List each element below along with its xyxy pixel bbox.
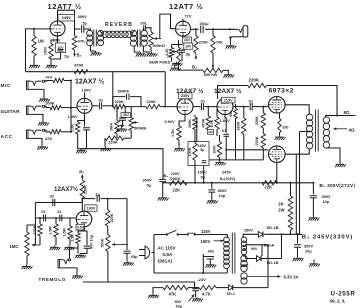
svg-text:2K: 2K xyxy=(278,202,283,207)
capacitor .01 V6 coupling xyxy=(250,103,252,110)
ground 300V cap xyxy=(158,196,169,201)
wire 2.2K to ground xyxy=(78,134,81,149)
svg-text:235V: 235V xyxy=(181,94,190,98)
spring coil reverb xyxy=(100,31,103,34)
wire V4 cathode xyxy=(179,115,185,126)
junction NFB tap xyxy=(336,115,338,117)
resistor 220K NFB xyxy=(248,83,266,87)
svg-text:B₂: B₂ xyxy=(79,169,84,174)
ground tone network xyxy=(101,147,112,152)
wire mic to mix point xyxy=(64,81,71,133)
wire 500K pot ground xyxy=(150,47,152,52)
svg-text:20μ: 20μ xyxy=(305,249,312,254)
arrow bias cap label xyxy=(189,295,195,302)
wire 3.9K bottom xyxy=(216,130,218,137)
svg-text:220K: 220K xyxy=(115,99,124,104)
wire .002 to ground xyxy=(122,120,124,127)
arrow 500K wiper reverb xyxy=(154,38,161,40)
output jack xyxy=(243,26,248,37)
wire V3 plate xyxy=(84,93,86,99)
wire V5 cathode xyxy=(225,115,226,133)
svg-text:(208V): (208V) xyxy=(170,177,182,181)
wire ACC sleeve xyxy=(31,138,42,145)
ground 500KB xyxy=(223,73,234,78)
wire tone to splitter grid xyxy=(160,106,177,108)
ground bias 47K xyxy=(148,294,159,299)
svg-text:B₄: B₄ xyxy=(192,65,197,70)
svg-text:100K: 100K xyxy=(212,145,216,154)
potentiometer 500K depth xyxy=(107,226,109,235)
svg-text:B₄: B₄ xyxy=(164,174,169,178)
resistor 22K B4 xyxy=(169,181,187,185)
fuse xyxy=(186,233,188,235)
svg-text:12AX7 ½: 12AX7 ½ xyxy=(75,78,104,86)
wire wiper 1MC xyxy=(32,244,40,246)
ground 2K semi fixed xyxy=(175,64,179,66)
arrow 2K wiper xyxy=(172,51,177,53)
capacitor .5u V2 cathode xyxy=(182,49,183,50)
wire 100K down to box xyxy=(194,130,196,144)
arrow 500KB wiper top xyxy=(212,60,214,68)
svg-text:4Ω: 4Ω xyxy=(349,127,355,132)
wire V8 cathode xyxy=(78,227,84,233)
svg-text:10V: 10V xyxy=(185,44,192,48)
svg-text:500K: 500K xyxy=(101,238,105,247)
wire bus drop to splitter grid xyxy=(164,72,166,107)
svg-text:80mA: 80mA xyxy=(264,244,275,248)
svg-text:100: 100 xyxy=(282,125,288,129)
wire B1 rail xyxy=(264,233,302,235)
svg-text:1.5K: 1.5K xyxy=(71,234,75,242)
svg-text:10μ: 10μ xyxy=(219,193,226,198)
junction box rail xyxy=(194,182,196,184)
ground OT secondary xyxy=(335,163,346,168)
ground GUITAR jack xyxy=(38,121,49,126)
wire V2 plate xyxy=(182,19,184,21)
wire V7 grid xyxy=(226,149,268,151)
wire 1M to ground xyxy=(33,56,35,64)
svg-text:10μ: 10μ xyxy=(323,199,330,204)
capacitor 350V 20u B1 xyxy=(297,234,299,243)
svg-text:GUITAR: GUITAR xyxy=(1,109,21,115)
svg-text:220K: 220K xyxy=(249,78,260,83)
ground below bus xyxy=(215,161,226,166)
junction rail 350V cap xyxy=(211,182,213,184)
svg-text:470K: 470K xyxy=(74,63,84,68)
svg-text:1500: 1500 xyxy=(44,47,48,55)
svg-text:0.5A: 0.5A xyxy=(163,252,173,257)
potentiometer 2K semi fixed xyxy=(178,40,180,47)
ground reverb pickup 2 xyxy=(147,52,158,57)
capacitor .01 V7 coupling xyxy=(223,134,229,136)
svg-text:220K: 220K xyxy=(199,40,208,45)
ground MIC jack xyxy=(39,97,50,102)
ground heater CT xyxy=(313,260,315,263)
wire 1M top lead xyxy=(33,29,35,36)
svg-text:1.85V: 1.85V xyxy=(68,114,79,119)
svg-text:56K: 56K xyxy=(229,110,233,117)
svg-text:12AT7 ½: 12AT7 ½ xyxy=(48,2,82,11)
wire tone mid xyxy=(125,106,147,108)
transformer OT secondary xyxy=(323,117,329,123)
ground under 1M xyxy=(29,64,40,69)
resistor 56K V5 plate xyxy=(235,104,237,109)
voltage box 0.5V xyxy=(76,224,85,230)
wire OT center tap xyxy=(300,131,311,133)
wire 500PF to corner xyxy=(130,97,141,107)
ground 1.5M second xyxy=(64,246,75,251)
wire 1.5M second ground xyxy=(69,239,71,246)
svg-text:245V: 245V xyxy=(62,15,72,20)
svg-text:6.3V 3A: 6.3V 3A xyxy=(284,275,299,280)
ground .002 xyxy=(116,127,127,132)
junction 220K out xyxy=(195,28,197,30)
resistor 220K bass horizontal xyxy=(105,136,124,140)
resistor 1.5M second xyxy=(69,218,71,226)
svg-text:245V: 245V xyxy=(222,170,231,175)
ground 1.5M first xyxy=(50,246,61,251)
wire GUITAR sleeve xyxy=(31,114,43,121)
wire bass res to ground xyxy=(104,138,106,146)
voltage box 190V xyxy=(85,205,97,211)
svg-text:500 KB: 500 KB xyxy=(204,72,218,77)
wire GUITAR tip xyxy=(38,106,50,107)
svg-text:470K: 470K xyxy=(201,118,205,127)
voltage box 245V at V1 plate xyxy=(58,15,75,22)
transformer OT primary xyxy=(306,114,312,120)
resistor 22K second xyxy=(262,181,277,185)
junction trem plate xyxy=(81,198,83,200)
wire wiper to V2 grid xyxy=(160,14,176,38)
svg-text:.001: .001 xyxy=(140,22,147,26)
junction B1 2K xyxy=(290,233,292,235)
capacitor .01 interstage xyxy=(201,103,203,110)
wire diode lower in xyxy=(246,258,257,260)
wire .01 down xyxy=(225,136,227,160)
wire to V6 grid xyxy=(253,106,268,108)
potentiometer 1MC speed xyxy=(27,225,35,232)
wire V1 plate to coupling cap xyxy=(58,10,75,29)
junction node A xyxy=(112,105,114,107)
svg-text:130V: 130V xyxy=(82,88,92,93)
junction B1 CT xyxy=(299,233,301,235)
ground B1 cap xyxy=(293,257,304,262)
wire parallel feed xyxy=(196,118,198,142)
resistor 100K guitar xyxy=(50,105,61,109)
wire V1 grid to input bus xyxy=(26,29,51,72)
ground 350V cap first xyxy=(207,199,218,204)
wire second B feed xyxy=(295,154,297,234)
resistor 220K grid V6 xyxy=(262,107,264,113)
svg-text:.002: .002 xyxy=(123,113,129,117)
pentode V6 6973 xyxy=(269,97,286,114)
jack GUITAR input xyxy=(27,106,31,114)
svg-text:100V: 100V xyxy=(201,239,211,244)
resistor 220K tone horizontal xyxy=(146,104,160,108)
svg-text:474: 474 xyxy=(46,76,53,80)
potentiometer 500KB reverb xyxy=(203,68,223,72)
junction 330K xyxy=(243,106,245,108)
junction cathode rail xyxy=(276,182,278,184)
svg-text:3.9K: 3.9K xyxy=(210,119,214,127)
wire acc to mix xyxy=(61,131,71,133)
capacitor .5u coupling xyxy=(82,25,84,33)
junction -23V xyxy=(194,287,196,289)
resistor 47K acc xyxy=(50,130,61,134)
transformer PT core xyxy=(232,233,235,274)
capacitor 10V bypass boxed xyxy=(56,43,66,53)
capacitor cathode bypass xyxy=(84,121,86,127)
svg-text:49, 2, 3,: 49, 2, 3, xyxy=(330,298,346,303)
capacitor in box xyxy=(202,161,207,163)
wire guitar to V3 grid xyxy=(61,107,77,109)
svg-text:47K: 47K xyxy=(78,39,85,44)
resistor 100 screen xyxy=(279,113,281,118)
svg-text:12AT7 ½: 12AT7 ½ xyxy=(169,2,203,11)
ground V2 cathode xyxy=(172,62,183,67)
svg-text:.001μ: .001μ xyxy=(199,21,210,26)
svg-text:.002: .002 xyxy=(207,249,214,253)
wire trem jack tip xyxy=(70,248,79,259)
svg-text:72V: 72V xyxy=(184,14,191,19)
junction rail B2 cap xyxy=(312,182,314,184)
resistor 220K trem plate xyxy=(80,180,84,198)
voltage box 38V xyxy=(183,37,192,43)
wire between grid resistors xyxy=(262,128,264,134)
svg-text:22K: 22K xyxy=(265,185,273,190)
svg-text:B₂ 305V(272V): B₂ 305V(272V) xyxy=(319,183,355,189)
wire 56K bottom xyxy=(235,119,237,160)
capacitor .002 tone xyxy=(119,118,126,120)
svg-text:.1μ: .1μ xyxy=(95,192,101,196)
voltage box 235V xyxy=(179,93,193,99)
ground under cathode resistor xyxy=(46,64,57,69)
wire 100K to wiper line xyxy=(39,236,41,245)
svg-text:1MA: 1MA xyxy=(108,123,113,131)
wire 220K g7 to bus xyxy=(262,148,264,160)
wire 1MA bottom xyxy=(116,134,118,138)
wire B+ to center tap xyxy=(299,132,301,235)
resistor 3.9K splitter xyxy=(216,109,218,117)
resistor 100K osc xyxy=(39,218,41,224)
wire trem plate down xyxy=(81,199,83,212)
wire HT bottom tap xyxy=(243,249,245,259)
arrow to B2 node xyxy=(74,50,76,57)
capacitor .001u xyxy=(201,26,203,34)
svg-text:1.5M: 1.5M xyxy=(49,226,53,234)
svg-text:100K: 100K xyxy=(188,147,192,156)
resistor 4.7K bias xyxy=(199,285,216,289)
wire V6 plate to OT xyxy=(285,105,309,115)
svg-text:280V: 280V xyxy=(244,229,253,233)
svg-text:SD-1B: SD-1B xyxy=(267,260,279,265)
svg-text:500KB: 500KB xyxy=(134,125,146,130)
svg-text:1.84V: 1.84V xyxy=(220,118,231,123)
wire 47K to node xyxy=(188,287,199,289)
svg-text:180: 180 xyxy=(208,130,213,134)
resistor 1.5K V4 cathode xyxy=(177,126,181,140)
svg-text:2W: 2W xyxy=(278,208,284,213)
wire 500KB right ground xyxy=(223,70,228,73)
wire 500K bottom xyxy=(107,252,109,283)
wire 150V cap to rail xyxy=(203,166,205,183)
svg-text:500PF: 500PF xyxy=(118,89,130,94)
wire drive primary top xyxy=(86,29,91,31)
wire cap to jack xyxy=(205,28,236,30)
junction .002 top xyxy=(124,106,126,108)
svg-text:B₁ 245V(330V): B₁ 245V(330V) xyxy=(302,235,353,241)
svg-text:2K: 2K xyxy=(167,55,172,59)
ground reverb drive xyxy=(91,51,102,56)
resistor 1.5M first xyxy=(55,218,57,224)
svg-text:B₃(203V): B₃(203V) xyxy=(220,177,236,181)
resistor 220K V2 xyxy=(195,29,197,35)
ground B2 cap xyxy=(309,216,320,221)
junction grid wire xyxy=(33,28,35,30)
potentiometer 500KB tone xyxy=(130,107,132,118)
svg-text:190V: 190V xyxy=(86,206,95,210)
svg-text:4.7K: 4.7K xyxy=(202,291,211,296)
wire 1.5M first ground xyxy=(55,237,57,246)
svg-text:330K: 330K xyxy=(236,121,240,130)
junction B1 cap xyxy=(297,233,299,235)
wire AC neutral bottom xyxy=(154,268,227,273)
triode V4 12AX7b xyxy=(177,99,193,115)
wire 500KB bottom xyxy=(130,131,132,139)
wire osc grid xyxy=(35,217,76,219)
svg-text:115V: 115V xyxy=(201,229,211,234)
transformer reverb drive primary xyxy=(87,30,93,36)
wire 47K top xyxy=(74,29,76,36)
pentode V7 6973 xyxy=(269,146,286,163)
junction rail 150V cap xyxy=(203,182,205,184)
wire MIC sleeve to ground xyxy=(31,89,44,97)
wire tap down xyxy=(267,245,269,288)
svg-text:8Ω: 8Ω xyxy=(344,110,350,115)
wire bias bus xyxy=(209,159,263,161)
svg-text:.01: .01 xyxy=(41,210,46,214)
junction 1.5M first xyxy=(55,217,57,219)
resistor 47K V1 plate load xyxy=(72,36,76,51)
svg-text:220K: 220K xyxy=(83,185,87,194)
wire node A up to 500PF xyxy=(113,97,126,107)
resistor 1M grid leak xyxy=(32,36,36,56)
svg-text:TREMOLO: TREMOLO xyxy=(39,277,66,282)
svg-text:.01: .01 xyxy=(57,210,62,214)
svg-text:2.2K: 2.2K xyxy=(71,124,75,132)
wire V2 out xyxy=(191,28,199,30)
wire NFB to speaker tap xyxy=(266,86,337,116)
capacitor 50V 10u cathode xyxy=(84,231,87,245)
wire V1 cathode split xyxy=(51,36,58,44)
wire .05u ground xyxy=(126,253,128,261)
resistor 220K grid V7 xyxy=(261,134,265,149)
wire 1.5K ground xyxy=(77,244,79,254)
resistor 100K V7 leak xyxy=(219,135,221,142)
junction V6 grid node xyxy=(262,106,264,108)
svg-text:0.92V: 0.92V xyxy=(165,119,176,124)
svg-text:220K: 220K xyxy=(110,213,114,222)
svg-text:.01: .01 xyxy=(248,98,254,103)
svg-text:SEMI FIXED: SEMI FIXED xyxy=(149,61,171,65)
resistor 470K splitter xyxy=(207,107,209,116)
ground reverb pickup 1 xyxy=(136,52,147,57)
svg-text:.02: .02 xyxy=(49,194,55,199)
svg-text:0.5V: 0.5V xyxy=(77,225,85,229)
capacitor .1u trem xyxy=(97,195,99,201)
resistor 70K V2 xyxy=(212,29,214,35)
resistor 470K mixer xyxy=(74,70,88,74)
potentiometer 500K ohm reverb xyxy=(149,32,153,47)
resistor 220K depth xyxy=(107,199,109,210)
wire NFB from V5 xyxy=(218,86,248,99)
junction V7 grid tee xyxy=(225,149,227,151)
wire 4.7K to diode xyxy=(216,287,229,289)
voltage box 180 xyxy=(207,130,213,135)
svg-text:220V: 220V xyxy=(171,172,180,176)
voltage box 215V xyxy=(222,97,236,103)
resistor 100K V4 plate xyxy=(194,115,196,117)
voltage box 10V xyxy=(184,43,193,49)
junction mix node xyxy=(70,107,72,109)
triode V3 12AX7a xyxy=(77,98,92,113)
contact sleeve jack xyxy=(232,36,244,38)
wire cap to node A xyxy=(103,105,113,107)
capacitor .01 coupling xyxy=(100,102,102,109)
wire cap to reverb transformer xyxy=(84,28,91,30)
triode V1 12AT7a xyxy=(50,21,65,36)
wire 1.5K ground xyxy=(178,140,180,147)
transformer reverb drive secondary xyxy=(98,30,104,36)
wire osc top xyxy=(35,199,82,203)
wire screen res to ground xyxy=(279,133,281,136)
wire diode to tap xyxy=(233,287,268,289)
wire bass res right xyxy=(124,137,131,139)
svg-text:100K: 100K xyxy=(33,225,37,234)
svg-text:12AX7½: 12AX7½ xyxy=(54,186,78,193)
wire to V5 grid xyxy=(204,106,217,108)
svg-text:AC 115V: AC 115V xyxy=(157,246,176,251)
wire box to rail xyxy=(194,160,196,182)
wire 500KB feed xyxy=(212,53,214,66)
svg-text:MIC: MIC xyxy=(1,83,12,89)
wire V5 out xyxy=(233,106,249,108)
svg-text:90V: 90V xyxy=(251,247,258,251)
resistor 2.2K V2 cathode xyxy=(172,45,183,48)
transformer reverb pickup primary xyxy=(130,30,136,36)
svg-text:6973×2: 6973×2 xyxy=(269,87,294,94)
svg-text:SD-1: SD-1 xyxy=(227,292,235,296)
capacitor .01 osc first xyxy=(44,215,46,222)
junction rail 2K xyxy=(290,182,292,184)
svg-text:.5μ: .5μ xyxy=(82,22,88,26)
wire V4 out xyxy=(193,106,201,108)
capacitor .01 osc second xyxy=(60,215,62,222)
resistor 330K xyxy=(243,107,245,118)
svg-text:1MC: 1MC xyxy=(10,244,19,249)
wire MIC tip xyxy=(38,80,53,83)
wire 300V cap to ground xyxy=(162,182,164,196)
svg-text:500KΩ: 500KΩ xyxy=(153,43,165,48)
wire V3 cathode xyxy=(78,113,85,122)
wire 2.2K V2 ground xyxy=(171,57,173,62)
transformer reverb pickup core xyxy=(138,30,141,48)
wire OT secondary top to 8ohm xyxy=(326,116,356,118)
junction dry mix xyxy=(164,106,166,108)
wire input bus horizontal xyxy=(26,71,166,73)
capacitor 500PF xyxy=(127,93,129,99)
svg-text:U-255R: U-255R xyxy=(331,291,356,298)
